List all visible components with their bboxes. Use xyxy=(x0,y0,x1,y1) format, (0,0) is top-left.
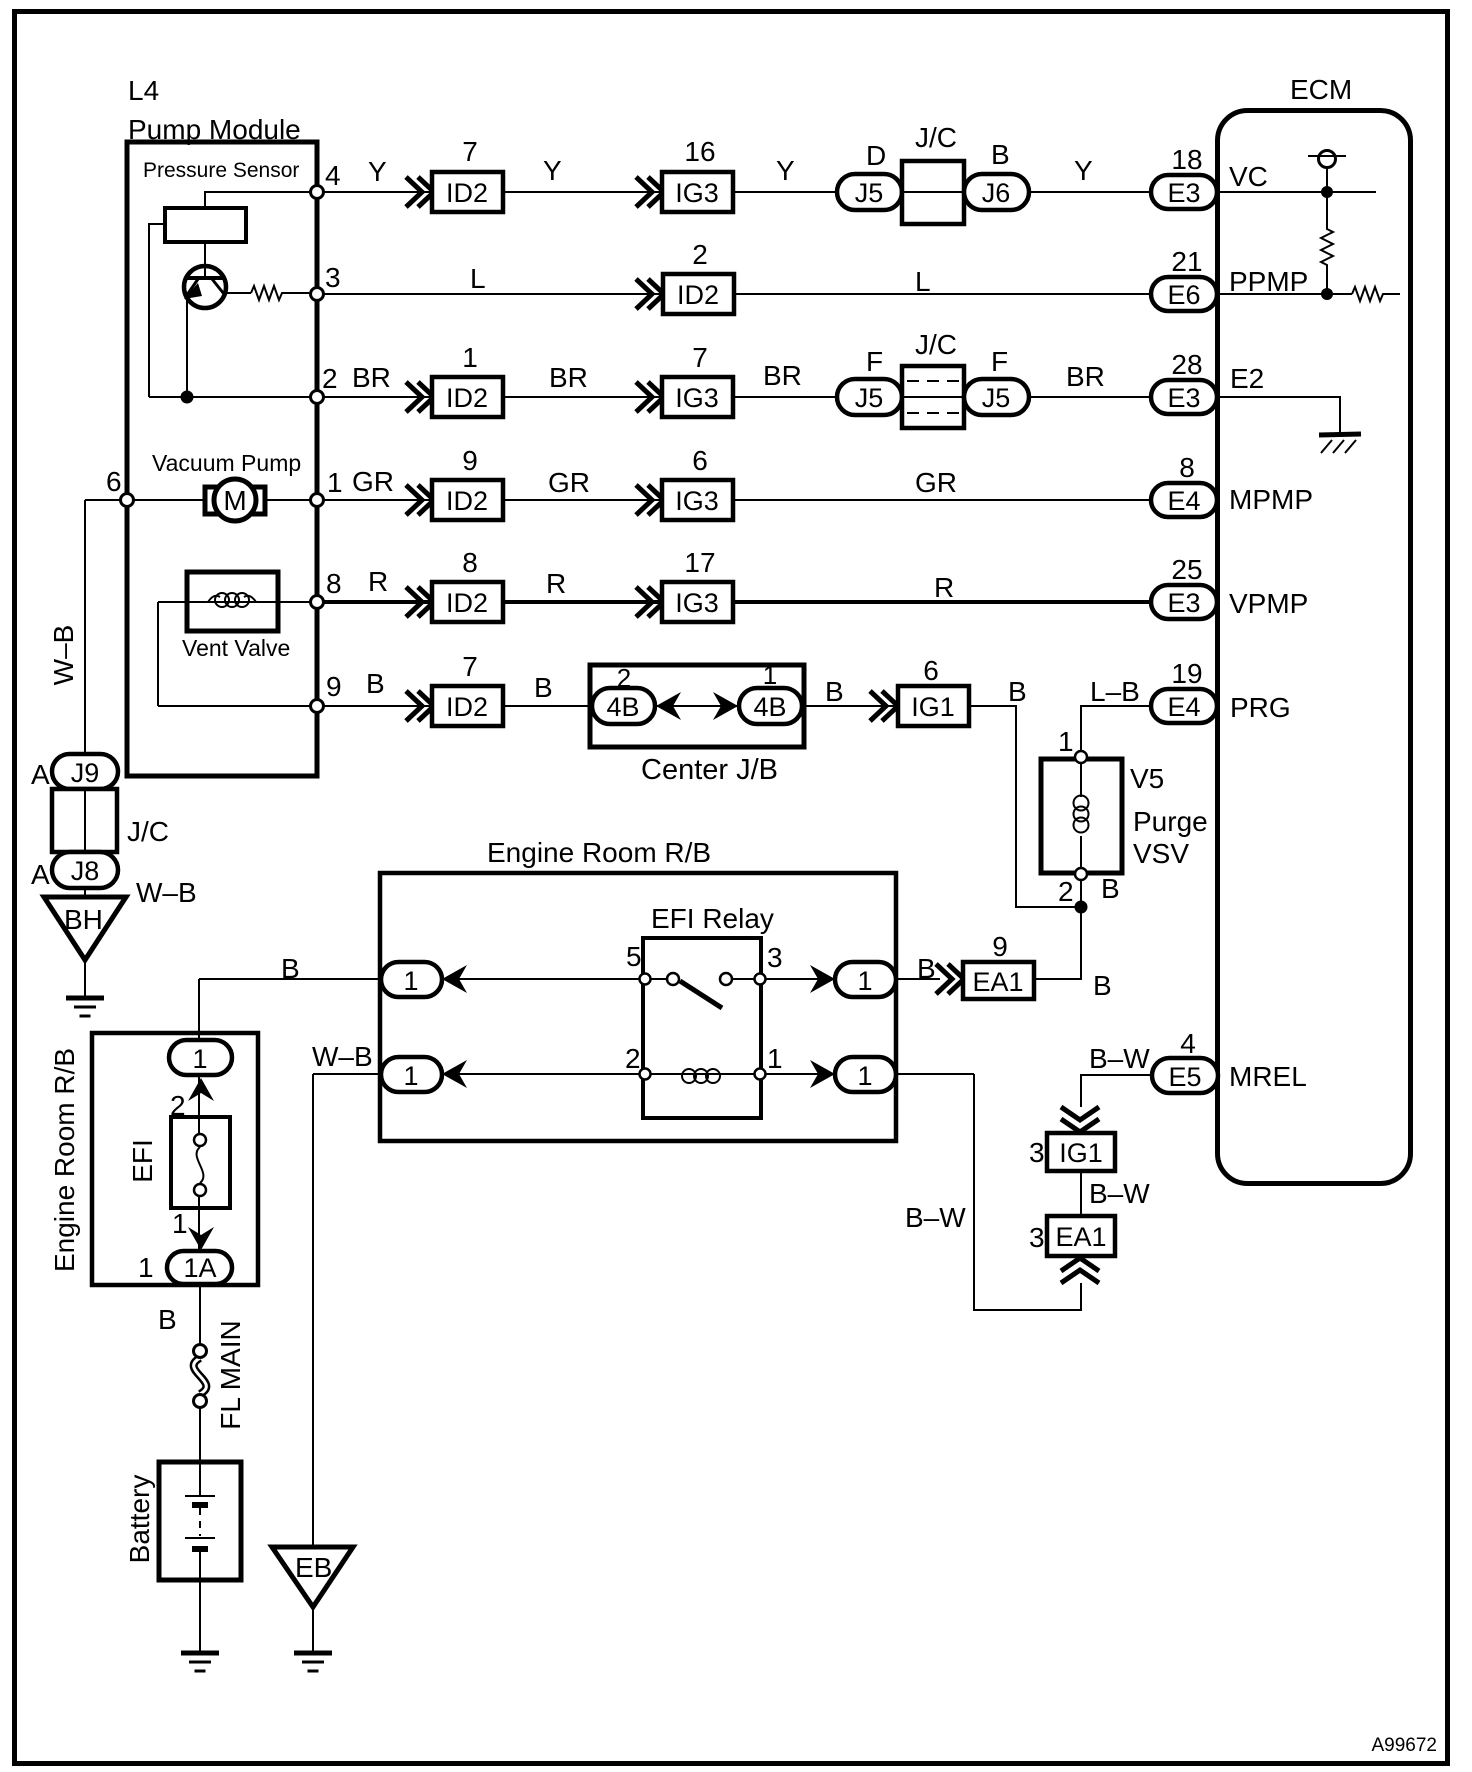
relay terminal 1 xyxy=(755,1069,766,1080)
svg-text:3: 3 xyxy=(325,262,341,293)
svg-text:9: 9 xyxy=(992,931,1008,962)
wire label B row6 seg3 xyxy=(825,676,844,707)
module pin 3 xyxy=(311,288,324,301)
svg-text:B: B xyxy=(1101,873,1120,904)
svg-text:1: 1 xyxy=(857,1061,872,1091)
pin label 7 above IG3 row3 xyxy=(692,342,708,373)
svg-text:7: 7 xyxy=(692,342,708,373)
connector chevron row3 a xyxy=(406,382,434,412)
svg-text:B: B xyxy=(917,953,936,984)
relay coil xyxy=(682,1069,720,1083)
svg-text:18: 18 xyxy=(1171,144,1202,175)
junction connector J5 row3 right xyxy=(964,379,1029,415)
pin label 5 xyxy=(626,941,642,972)
junction connector J5 row1 xyxy=(837,174,902,210)
svg-text:E4: E4 xyxy=(1167,486,1200,516)
label V5 xyxy=(1130,763,1164,794)
wire label BR row3 seg1 xyxy=(352,362,391,393)
svg-text:FL MAIN: FL MAIN xyxy=(215,1320,246,1429)
svg-text:1: 1 xyxy=(403,1061,418,1091)
svg-text:L: L xyxy=(470,263,486,294)
svg-text:B–W: B–W xyxy=(1089,1043,1150,1074)
svg-text:IG3: IG3 xyxy=(675,486,719,516)
svg-text:L4: L4 xyxy=(128,75,159,106)
label Vent Valve xyxy=(182,635,290,661)
pin label 1 EFI xyxy=(172,1208,188,1239)
module pin 9 xyxy=(311,700,324,713)
connector chevron row4 a xyxy=(406,485,434,515)
ground triangle EB xyxy=(272,1547,353,1607)
svg-text:PRG: PRG xyxy=(1230,692,1291,723)
ECM internal VC wire xyxy=(1217,191,1376,193)
wire row5 vent valve internal xyxy=(158,601,317,603)
wire label R row5 seg2 xyxy=(546,568,566,599)
svg-text:J5: J5 xyxy=(855,383,884,413)
wire label GR row4 seg1 xyxy=(352,466,394,497)
svg-text:A99672: A99672 xyxy=(1371,1735,1437,1756)
pin label 2 relay xyxy=(625,1043,641,1074)
pin label 2 EFI xyxy=(170,1090,186,1121)
label J/C left xyxy=(127,816,169,847)
wire label Y row1 seg1 xyxy=(368,156,387,187)
wire label B-W near E5 xyxy=(1089,1043,1150,1074)
label Vacuum Pump xyxy=(152,450,301,476)
svg-text:J5: J5 xyxy=(855,178,884,208)
pressure sensor body xyxy=(165,208,246,242)
svg-text:Battery: Battery xyxy=(124,1475,155,1564)
wire row1 Y (pin4 to E3) xyxy=(317,191,1151,193)
junction dot VC xyxy=(1321,186,1333,198)
svg-text:L: L xyxy=(915,266,931,297)
pin label 3 xyxy=(767,942,783,973)
chassis ground E2 xyxy=(1319,434,1361,453)
svg-text:R: R xyxy=(368,566,388,597)
label W-B at J8 xyxy=(136,877,197,908)
EFI relay box xyxy=(643,938,761,1118)
svg-text:B: B xyxy=(825,676,844,707)
junction dot sensor common xyxy=(181,391,194,404)
svg-text:6: 6 xyxy=(106,466,122,497)
svg-text:ID2: ID2 xyxy=(446,383,488,413)
connector EA1 lower xyxy=(1047,1216,1115,1256)
wire label B below V5 xyxy=(1101,873,1120,904)
wire relay row A left feed xyxy=(199,978,673,980)
internal resistor vertical xyxy=(1321,192,1333,294)
svg-text:E6: E6 xyxy=(1167,280,1200,310)
pin label 8 xyxy=(1179,452,1195,483)
svg-text:B–W: B–W xyxy=(1089,1178,1150,1209)
svg-text:B: B xyxy=(158,1304,177,1335)
junction block J/C row1 xyxy=(902,161,964,224)
connector 1 relay row B left xyxy=(381,1057,442,1092)
svg-text:4B: 4B xyxy=(606,692,639,722)
svg-text:IG3: IG3 xyxy=(675,588,719,618)
svg-text:R: R xyxy=(546,568,566,599)
pin label 2 above 4B left xyxy=(617,663,631,693)
svg-text:8: 8 xyxy=(326,568,342,599)
label EFI Relay xyxy=(651,903,774,934)
label Center J/B xyxy=(641,754,778,786)
connector ID2 row3 xyxy=(432,377,503,417)
svg-text:E3: E3 xyxy=(1167,178,1200,208)
wire IG1 to junction (B) xyxy=(970,706,1081,907)
svg-text:1: 1 xyxy=(138,1252,154,1283)
svg-text:3: 3 xyxy=(767,942,783,973)
figure number A99672 xyxy=(1371,1735,1437,1756)
svg-text:2: 2 xyxy=(692,239,708,270)
svg-text:BH: BH xyxy=(64,904,103,935)
fuse EFI box xyxy=(171,1117,230,1208)
svg-text:1A: 1A xyxy=(183,1253,216,1283)
svg-text:EB: EB xyxy=(295,1552,332,1583)
connector J9 xyxy=(52,754,118,789)
svg-text:IG3: IG3 xyxy=(675,383,719,413)
wire label BR row3 seg3 xyxy=(763,360,802,391)
svg-text:4: 4 xyxy=(325,160,341,191)
connector IG3 row4 xyxy=(662,480,733,520)
connector chevron row2 xyxy=(636,279,664,309)
pin label F above J5 left xyxy=(866,346,883,377)
svg-text:1: 1 xyxy=(763,660,777,690)
wire EA1 loop to relay xyxy=(974,1074,1081,1310)
connector 4B left xyxy=(592,688,655,724)
dart arrow down EFI xyxy=(188,1227,214,1250)
svg-text:F: F xyxy=(866,346,883,377)
pin label 2 V5 xyxy=(1058,876,1074,907)
svg-text:BR: BR xyxy=(1066,361,1105,392)
connector chevron down IG1 xyxy=(1061,1107,1099,1132)
dart arrow right (center J/B) xyxy=(713,692,738,720)
module pin 4 xyxy=(311,186,324,199)
ECM connector E5 pin4 xyxy=(1152,1058,1218,1093)
connector chevron up EA1 xyxy=(1061,1258,1099,1283)
pin label 2 above ID2 row2 xyxy=(692,239,708,270)
wire relay row B xyxy=(313,1073,974,1075)
pin label 16 above IG3 row1 xyxy=(684,136,715,167)
pin label 9 xyxy=(326,671,342,702)
ECM box xyxy=(1218,111,1411,1184)
wire label R row5 seg1 xyxy=(368,566,388,597)
connector IG1 lower xyxy=(1047,1133,1115,1171)
connector ID2 row6 xyxy=(432,686,503,726)
wire label B after IG1 xyxy=(1008,676,1027,707)
relay terminal 5 xyxy=(640,974,651,985)
junction dot PPMP xyxy=(1321,288,1333,300)
svg-text:MPMP: MPMP xyxy=(1229,484,1313,515)
wire label GR row4 seg3 xyxy=(915,467,957,498)
wire label Y row1 seg2 xyxy=(543,155,562,186)
dart arrow row A right xyxy=(810,965,835,993)
wire label B at EA1 corner xyxy=(1093,970,1112,1001)
svg-text:Engine Room R/B: Engine Room R/B xyxy=(487,837,711,868)
svg-text:ID2: ID2 xyxy=(446,178,488,208)
connector 1 lower box top xyxy=(169,1040,232,1075)
svg-text:B: B xyxy=(366,668,385,699)
svg-text:IG1: IG1 xyxy=(911,692,955,722)
svg-text:1: 1 xyxy=(462,342,478,373)
pin label 4 xyxy=(1180,1028,1196,1059)
svg-text:ECM: ECM xyxy=(1290,74,1352,105)
connector J8 xyxy=(52,852,118,888)
label EFI vertical xyxy=(127,1139,158,1183)
svg-text:2: 2 xyxy=(625,1043,641,1074)
wire row4 GR (pin6/motor to E4) xyxy=(127,499,1151,501)
pin label 25 xyxy=(1171,554,1202,585)
svg-text:Pressure Sensor: Pressure Sensor xyxy=(143,159,299,182)
connector EA1 xyxy=(963,962,1034,999)
V5 pin2 circle xyxy=(1075,868,1087,880)
wire label B-W left leg xyxy=(905,1202,966,1233)
pin label A at J9 xyxy=(31,759,50,790)
label PRG xyxy=(1230,692,1291,723)
wire label B row6 seg2 xyxy=(534,672,553,703)
svg-text:BR: BR xyxy=(763,360,802,391)
internal resistor horizontal xyxy=(1352,287,1400,301)
svg-text:9: 9 xyxy=(462,445,478,476)
connector IG3 row1 xyxy=(662,172,733,212)
svg-text:J5: J5 xyxy=(982,383,1011,413)
label VPMP xyxy=(1229,588,1308,619)
svg-text:VPMP: VPMP xyxy=(1229,588,1308,619)
svg-text:25: 25 xyxy=(1171,554,1202,585)
connector chevron row5 b xyxy=(636,587,664,617)
wire MREL E5 to IG1 xyxy=(1081,1075,1151,1107)
svg-text:Purge: Purge xyxy=(1133,806,1208,837)
pin label 1 xyxy=(327,467,343,498)
wire W-B down to J9 xyxy=(84,500,86,757)
label Engine Room R/B vertical xyxy=(49,1048,80,1272)
svg-text:17: 17 xyxy=(684,547,715,578)
ECM connector E4 pin8 xyxy=(1151,483,1217,517)
svg-text:BR: BR xyxy=(549,362,588,393)
svg-text:E5: E5 xyxy=(1168,1062,1201,1092)
pin label 8 xyxy=(326,568,342,599)
wire label GR row4 seg2 xyxy=(548,467,590,498)
svg-text:Center J/B: Center J/B xyxy=(641,754,778,786)
connector chevron row6 b xyxy=(870,691,898,721)
wire V5 pin2 down to EA1 corner xyxy=(1034,881,1081,979)
engine room R/B box xyxy=(380,873,896,1141)
pin label 18 xyxy=(1171,144,1202,175)
pin label 3 at EA1 xyxy=(1029,1222,1045,1253)
label J/C row1 xyxy=(915,122,957,153)
svg-text:2: 2 xyxy=(322,363,338,394)
label Pump Module xyxy=(128,114,301,145)
svg-text:6: 6 xyxy=(923,655,939,686)
connector chevron row4 b xyxy=(636,485,664,515)
purge VSV box V5 xyxy=(1041,759,1122,873)
pin label 9 above ID2 row4 xyxy=(462,445,478,476)
pin label 1 above 4B right xyxy=(763,660,777,690)
ECM connector E3 pin28 xyxy=(1151,380,1217,414)
svg-text:A: A xyxy=(31,759,50,790)
connector chevron row3 b xyxy=(636,382,664,412)
label Pressure Sensor xyxy=(143,159,299,182)
pin label B above J6 xyxy=(991,139,1010,170)
svg-text:E4: E4 xyxy=(1167,692,1200,722)
svg-text:E2: E2 xyxy=(1230,363,1264,394)
ECM internal PPMP wire xyxy=(1217,293,1352,295)
svg-text:2: 2 xyxy=(1058,876,1074,907)
svg-text:19: 19 xyxy=(1171,658,1202,689)
svg-text:1: 1 xyxy=(767,1043,783,1074)
transistor emitter wire down xyxy=(186,295,188,397)
pin label 1 above ID2 row3 xyxy=(462,342,478,373)
ECM connector E3 pin25 xyxy=(1151,585,1217,619)
pin label 7 above ID2 row6 xyxy=(462,651,478,682)
connector ID2 row1 xyxy=(432,172,503,212)
connector 1 relay row A left xyxy=(381,962,442,997)
svg-text:4B: 4B xyxy=(753,692,786,722)
svg-text:B: B xyxy=(1093,970,1112,1001)
connector 1A xyxy=(167,1251,232,1284)
label Battery vertical xyxy=(124,1475,155,1564)
svg-text:ID2: ID2 xyxy=(446,692,488,722)
svg-text:IG3: IG3 xyxy=(675,178,719,208)
connector IG3 row5 xyxy=(662,582,733,622)
svg-text:IG1: IG1 xyxy=(1059,1138,1103,1168)
ground symbol EB xyxy=(294,1653,332,1671)
svg-text:F: F xyxy=(991,346,1008,377)
dart arrow left (center J/B) xyxy=(656,692,681,720)
wire B feed down to lower box xyxy=(198,979,200,1045)
wire row5 R thick (vent valve to E3) xyxy=(317,600,1151,604)
pressure sensor left tap wire xyxy=(149,224,165,397)
ground symbol battery xyxy=(181,1653,219,1671)
pin label 19 xyxy=(1171,658,1202,689)
wire label B after relay xyxy=(917,953,936,984)
label FL MAIN vertical xyxy=(215,1320,246,1429)
wire label R row5 seg3 xyxy=(934,572,954,603)
wire vent valve left branch xyxy=(157,602,159,706)
svg-text:J/C: J/C xyxy=(915,122,957,153)
svg-text:M: M xyxy=(223,485,246,516)
svg-text:28: 28 xyxy=(1171,349,1202,380)
svg-text:8: 8 xyxy=(1179,452,1195,483)
svg-text:5: 5 xyxy=(626,941,642,972)
connector 1 relay row A right xyxy=(835,962,896,997)
label L4 xyxy=(128,75,159,106)
pin label 17 above IG3 row5 xyxy=(684,547,715,578)
svg-text:Y: Y xyxy=(776,155,795,186)
ground symbol BH xyxy=(66,998,104,1016)
svg-text:Vent Valve: Vent Valve xyxy=(182,635,290,661)
wire sensor to transistor xyxy=(204,242,206,270)
svg-text:7: 7 xyxy=(462,136,478,167)
wire label L row2 seg1 xyxy=(470,263,486,294)
vent valve box xyxy=(187,572,278,631)
connector chevron row6 a xyxy=(406,691,434,721)
svg-text:J6: J6 xyxy=(982,178,1011,208)
wire row3 BR (pin2 to E3) xyxy=(149,396,1151,398)
pin label 1 V5 xyxy=(1058,726,1074,757)
module pin 1 xyxy=(311,494,324,507)
svg-text:EFI: EFI xyxy=(127,1139,158,1183)
connector chevron row5 a xyxy=(406,587,434,617)
svg-text:J8: J8 xyxy=(71,856,100,886)
junction connector J5 row3 left xyxy=(837,379,902,415)
label MPMP xyxy=(1229,484,1313,515)
svg-text:3: 3 xyxy=(1029,1222,1045,1253)
svg-text:1: 1 xyxy=(857,966,872,996)
module pin 8 xyxy=(311,596,324,609)
svg-text:6: 6 xyxy=(692,445,708,476)
pin label 2 xyxy=(322,363,338,394)
svg-text:Y: Y xyxy=(1074,155,1093,186)
wire label Y row1 seg4 xyxy=(1074,155,1093,186)
svg-text:W–B: W–B xyxy=(136,877,197,908)
vent valve coil xyxy=(208,593,256,607)
wire row6 B (pin9 to IG1) xyxy=(158,705,970,707)
svg-text:W–B: W–B xyxy=(312,1041,373,1072)
label MREL xyxy=(1229,1061,1307,1092)
svg-text:R: R xyxy=(934,572,954,603)
power terminal circle xyxy=(1308,151,1346,168)
svg-text:4: 4 xyxy=(1180,1028,1196,1059)
wire relay row A right xyxy=(726,978,940,980)
wire row2 L (pin3 to E6) xyxy=(317,293,1151,295)
wire J8 to BH xyxy=(84,888,86,899)
connector 4B right xyxy=(739,688,802,724)
svg-text:E3: E3 xyxy=(1167,383,1200,413)
wire W-B down to EB xyxy=(312,1074,314,1548)
relay switch contact b xyxy=(720,973,732,985)
svg-text:Y: Y xyxy=(543,155,562,186)
svg-text:9: 9 xyxy=(326,671,342,702)
label PPMP xyxy=(1229,266,1308,297)
wire IG1 to EA1 xyxy=(1080,1171,1082,1216)
module pin 6 xyxy=(121,494,134,507)
pin label 8 above ID2 row5 xyxy=(462,547,478,578)
svg-text:GR: GR xyxy=(548,467,590,498)
wire label B row6 seg1 xyxy=(366,668,385,699)
svg-text:1: 1 xyxy=(1058,726,1074,757)
svg-text:W–B: W–B xyxy=(48,625,79,686)
pin label 7 above ID2 row1 xyxy=(462,136,478,167)
svg-text:B: B xyxy=(534,672,553,703)
connector ID2 row5 xyxy=(432,582,503,622)
pin label A at J8 xyxy=(31,859,50,890)
svg-text:BR: BR xyxy=(352,362,391,393)
wire label B battery xyxy=(158,1304,177,1335)
svg-text:E3: E3 xyxy=(1167,588,1200,618)
svg-text:VC: VC xyxy=(1229,161,1268,192)
ECM internal E2 wire xyxy=(1217,397,1340,433)
connector chevron row1 a xyxy=(406,177,434,207)
svg-text:16: 16 xyxy=(684,136,715,167)
svg-text:GR: GR xyxy=(915,467,957,498)
wire label BR row3 seg4 xyxy=(1066,361,1105,392)
svg-text:V5: V5 xyxy=(1130,763,1164,794)
wire label W-B feed xyxy=(312,1041,373,1072)
wire label B-W between xyxy=(1089,1178,1150,1209)
svg-text:ID2: ID2 xyxy=(446,588,488,618)
svg-text:L–B: L–B xyxy=(1090,676,1140,707)
ground triangle BH xyxy=(44,897,126,960)
pin label 6 xyxy=(106,466,122,497)
connector ID2 row4 xyxy=(432,480,503,520)
V5 coil xyxy=(1074,796,1089,833)
dart arrow row A left xyxy=(442,965,467,993)
resistor row2 (sensor output) xyxy=(225,286,309,300)
pin label 1 relay xyxy=(767,1043,783,1074)
wire label B feed xyxy=(281,953,300,984)
ECM connector E6 pin21 xyxy=(1151,277,1217,311)
pin label D above J5 xyxy=(866,140,886,171)
wire label BR row3 seg2 xyxy=(549,362,588,393)
wire EB to ground xyxy=(312,1607,314,1651)
svg-text:D: D xyxy=(866,140,886,171)
